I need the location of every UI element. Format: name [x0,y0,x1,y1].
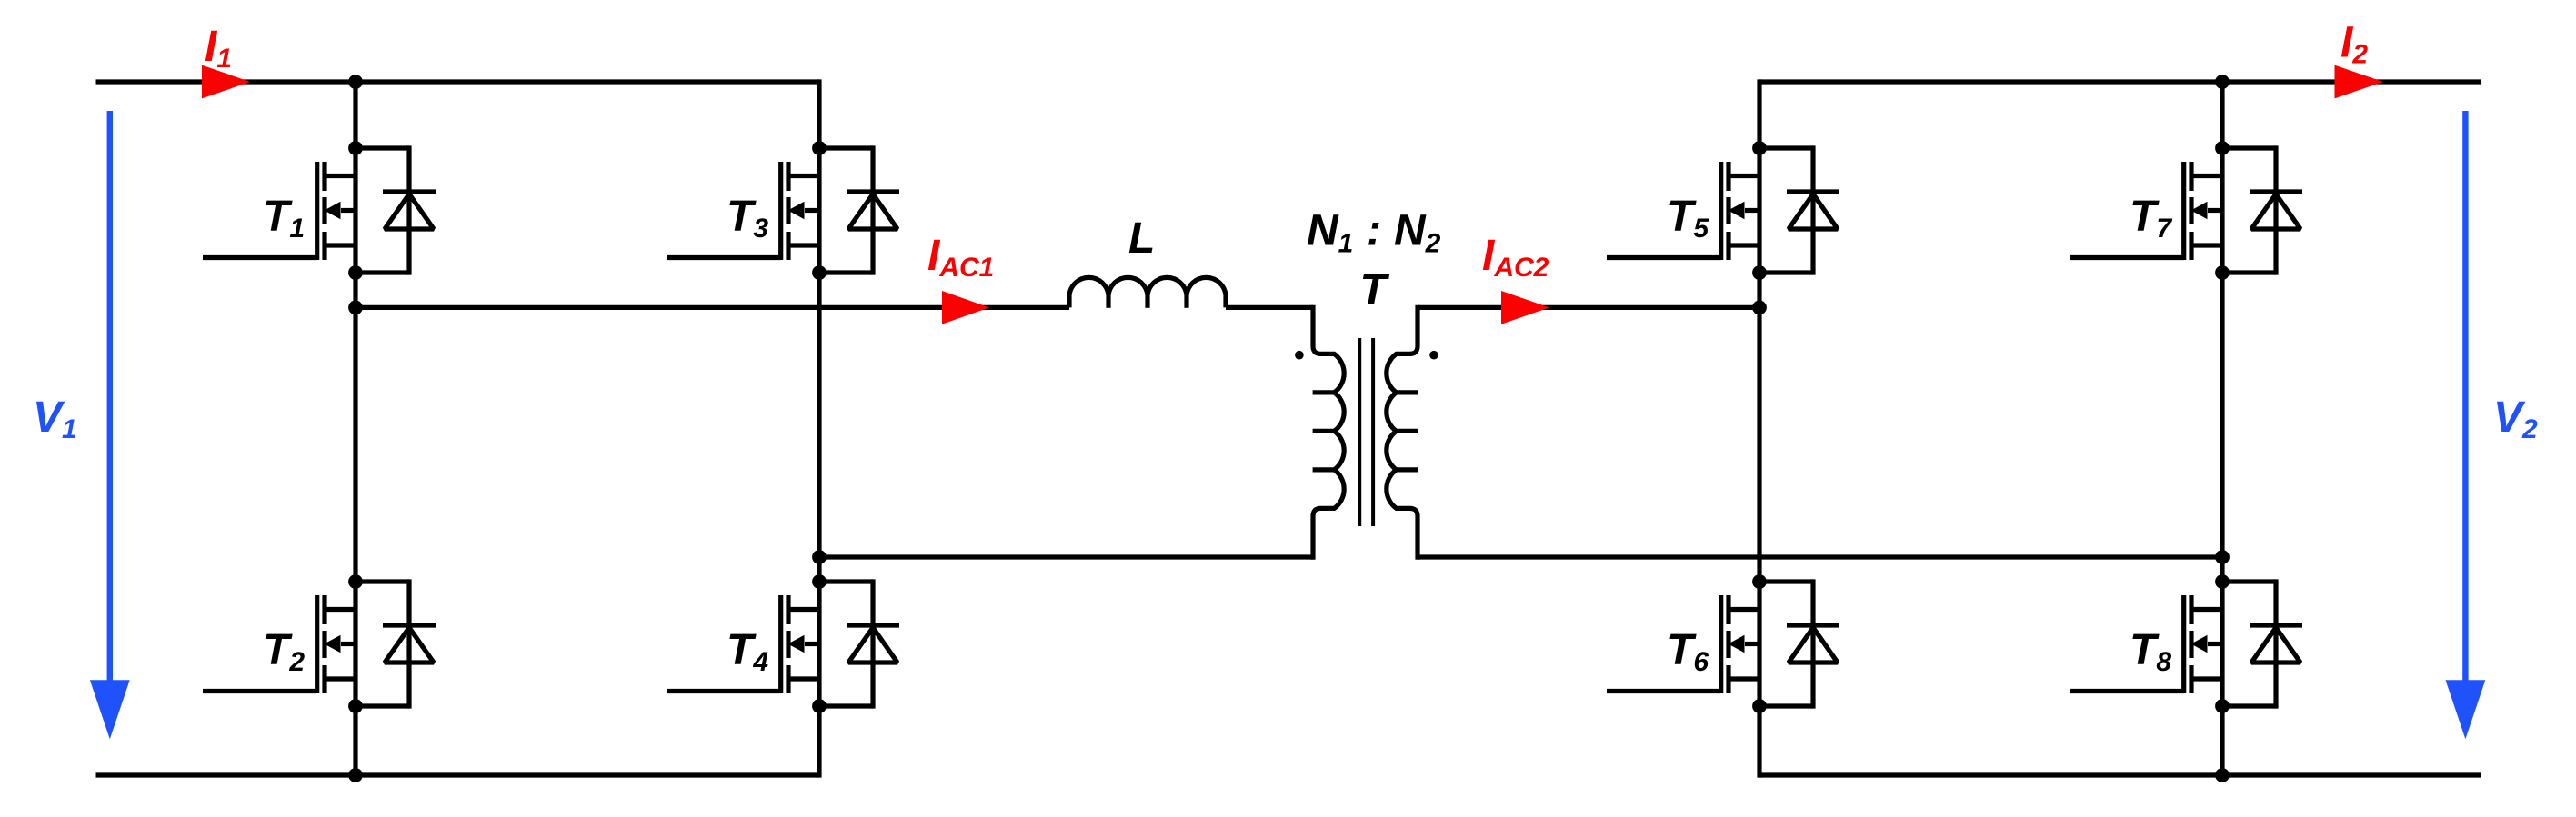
wire leg T1/T2 [353,79,357,777]
svg-text:T2: T2 [263,626,305,677]
junction T7/T8 midpoint node [2215,550,2230,564]
junction T1 drain node [348,141,363,155]
junction T1 source node [348,265,363,280]
junction T3 source node [812,265,827,280]
current arrow IAC2 [1501,291,1549,324]
svg-text:V1: V1 [33,394,77,444]
svg-text:T: T [1360,266,1390,314]
transistor T5 (N-MOSFET) [1607,162,1759,260]
junction T4 drain node [812,574,827,589]
inductor L [1069,277,1226,307]
wire top bus right [1759,79,2481,84]
body diode of T3 [819,145,899,274]
wire bottom bus right [1759,772,2481,777]
wire bottom bus left [96,772,820,777]
junction T6 source node [1752,699,1767,713]
svg-text:T4: T4 [727,626,768,677]
voltage arrow V1 [90,111,130,739]
primary polarity dot [1295,351,1304,360]
junction T7 source node [2215,265,2230,280]
current arrow IAC1 [942,291,989,324]
svg-text:IAC2: IAC2 [1482,232,1549,283]
svg-text:T5: T5 [1667,193,1709,244]
junction T8 drain node [2215,574,2230,589]
junction T3 drain node [812,141,827,155]
junction T5 source node [1752,265,1767,280]
junction T3/T4 midpoint node [812,550,827,564]
junction T7 drain node [2215,141,2230,155]
transistor T1 (N-MOSFET) [203,162,356,260]
body diode of T2 [356,579,436,708]
body diode of T4 [819,579,899,708]
wire primary bottom return [819,554,1313,559]
transistor T7 (N-MOSFET) [2070,162,2222,260]
transistor T4 (N-MOSFET) [667,595,819,693]
svg-text:T1: T1 [263,193,305,244]
transformer T primary winding [1313,305,1345,560]
junction top bus / T7 drain leg [2215,75,2230,89]
current arrow I1 [202,65,250,99]
junction T2 drain node [348,574,363,589]
body diode of T5 [1759,145,1839,274]
svg-text:IAC1: IAC1 [927,232,994,283]
wire leg T3/T4 [817,79,821,777]
svg-text:T3: T3 [727,193,768,244]
svg-text:N1:N2: N1:N2 [1307,207,1441,259]
transistor T8 (N-MOSFET) [2070,595,2222,693]
junction T4 source node [812,699,827,713]
wire leg T5/T6 [1757,79,1761,777]
junction AC2 node [1752,301,1767,315]
wire secondary bottom return [1418,554,2222,559]
junction T2 source node [348,699,363,713]
wire leg T7/T8 [2220,79,2224,777]
svg-text:I2: I2 [2340,19,2368,70]
svg-text:T8: T8 [2130,626,2171,677]
junction bottom bus / T2 source leg [348,768,363,782]
transistor T3 (N-MOSFET) [667,162,819,260]
transformer core [1359,338,1373,526]
junction bottom bus / T8 source leg [2215,768,2230,782]
junction T6 drain node [1752,574,1767,589]
junction top bus / T1 drain leg [348,75,363,89]
voltage arrow V2 [2446,111,2486,739]
transformer T secondary winding [1387,305,1418,560]
body diode of T8 [2222,579,2302,708]
transistor T6 (N-MOSFET) [1607,595,1759,693]
current arrow I2 [2335,65,2383,99]
wire AC node 1 to inductor [356,305,1069,310]
wire secondary top to AC node 2 [1418,305,1759,310]
wire top bus left [96,79,820,84]
body diode of T1 [356,145,436,274]
junction T5 drain node [1752,141,1767,155]
wire inductor to primary top [1226,305,1313,310]
svg-text:I1: I1 [205,23,232,74]
body diode of T7 [2222,145,2302,274]
body diode of T6 [1759,579,1839,708]
svg-text:L: L [1128,214,1155,263]
secondary polarity dot [1429,351,1438,360]
svg-text:T7: T7 [2130,193,2172,244]
svg-text:T6: T6 [1667,626,1709,677]
junction AC1 node [348,301,363,315]
transistor T2 (N-MOSFET) [203,595,356,693]
junction T8 source node [2215,699,2230,713]
svg-text:V2: V2 [2493,394,2538,444]
